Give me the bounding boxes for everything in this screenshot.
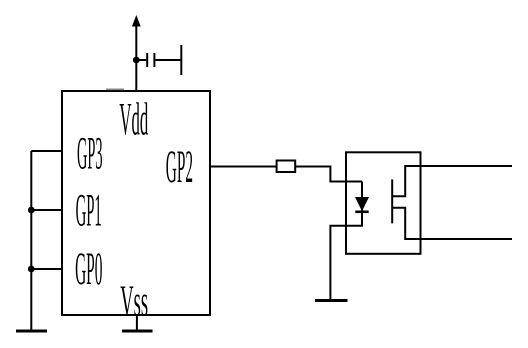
svg-text:GP0: GP0 (75, 243, 102, 295)
svg-text:GP2: GP2 (166, 141, 193, 193)
svg-text:Vss: Vss (120, 276, 148, 325)
svg-text:GP1: GP1 (76, 184, 102, 236)
svg-text:GP3: GP3 (77, 128, 103, 180)
svg-text:Vdd: Vdd (119, 94, 148, 146)
